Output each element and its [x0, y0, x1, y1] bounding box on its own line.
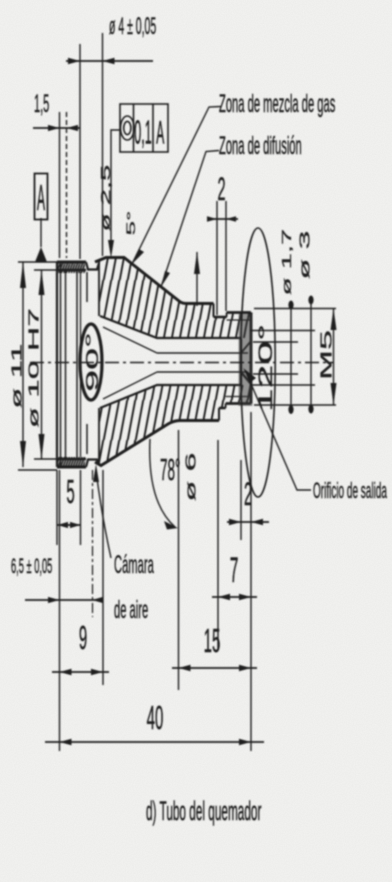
leader camara arrow — [93, 464, 99, 482]
dim 7 left arrow — [218, 594, 230, 600]
detail circle (large ellipse) — [241, 228, 275, 497]
bore line top (o10) — [57, 269, 86, 272]
thread root top — [227, 319, 251, 321]
dim 78 arc — [150, 439, 175, 527]
flange right face / chamber left wall — [86, 272, 88, 454]
svg-text:40: 40 — [147, 698, 164, 737]
svg-text:ø 1,7: ø 1,7 — [280, 229, 294, 296]
ext o3 top — [250, 330, 315, 332]
dim 2 right left arrow — [229, 519, 241, 525]
bottom air notch — [86, 460, 99, 468]
datum A triangle — [35, 247, 47, 262]
hatch flange bottom rim — [57, 457, 85, 467]
ext line x218 — [217, 440, 219, 650]
dim M5 line — [333, 309, 335, 406]
dim 2 right right arrow — [251, 519, 263, 525]
svg-text:120°: 120° — [255, 324, 276, 412]
inner funnel upper thin — [103, 327, 157, 353]
datum A box — [35, 174, 48, 220]
socket inner vertical 2 — [76, 270, 78, 459]
svg-text:Orificio de salida: Orificio de salida — [313, 477, 387, 503]
bore line bottom (o10) — [57, 458, 86, 461]
dim o3 line — [310, 298, 312, 411]
ext line o10 top — [34, 269, 57, 271]
dim o4 line — [66, 60, 153, 62]
inner funnel lower thin — [103, 372, 157, 399]
dim o3 bottom arrow — [308, 405, 313, 414]
dim 78 arrow — [164, 521, 178, 530]
svg-text:A: A — [37, 178, 45, 218]
dim 1,5 right arrow — [67, 125, 79, 131]
chamber vertical centerline — [92, 470, 94, 617]
dim M5 bottom arrow — [331, 383, 337, 405]
dim 15 line — [172, 667, 257, 669]
svg-text:6,5 ± 0,05: 6,5 ± 0,05 — [11, 555, 52, 578]
ext line x80.5 mid — [80, 470, 82, 545]
svg-text:0,1: 0,1 — [134, 114, 151, 151]
dim 6,5 right arrow — [92, 597, 103, 603]
leader zona difusion arrow — [161, 271, 170, 287]
small bore top — [157, 352, 248, 354]
ext o3 bottom — [250, 384, 315, 386]
air chamber cone 90deg ellipse — [80, 324, 102, 400]
dim 5 line — [57, 524, 81, 526]
ext line x57 mid — [56, 470, 58, 545]
dim 5 left arrow — [58, 522, 69, 528]
svg-text:15: 15 — [204, 621, 221, 660]
dim o4 right arrow — [103, 58, 115, 64]
dim 2 top left arrow — [207, 216, 217, 222]
svg-text:A: A — [156, 116, 164, 152]
flange left face — [56, 262, 58, 467]
svg-text:d) Tubo del quemador: d) Tubo del quemador — [146, 797, 261, 827]
end face — [250, 313, 253, 404]
dim 5 right arrow — [70, 522, 81, 528]
svg-text:Zona de mezcla de gas: Zona de mezcla de gas — [219, 90, 335, 118]
leader 5deg vertical — [196, 252, 198, 306]
dim 2 top right arrow — [226, 216, 236, 222]
upper outer profile cone and cylinder — [95, 258, 214, 304]
ext line x226 — [225, 201, 227, 311]
svg-text:ø 10 H7: ø 10 H7 — [25, 308, 42, 428]
dim o10H7 line — [41, 270, 43, 459]
ext line x59.5 top — [59, 112, 61, 258]
ext M5 bottom — [254, 404, 336, 406]
dim 1,5 line — [33, 127, 80, 129]
axis centerline — [30, 362, 333, 364]
leader zona difusion — [161, 151, 219, 288]
ext line x66.5 top — [66, 112, 68, 258]
top air notch — [86, 262, 99, 270]
small bore bottom — [157, 371, 248, 373]
part body — [30, 228, 333, 617]
ext line x59.5 bottom long — [59, 470, 61, 751]
dim 9 left arrow — [60, 669, 72, 675]
ext line x104 — [102, 33, 104, 256]
dim o11 top arrow — [20, 262, 26, 288]
svg-text:ø 4 ± 0,05: ø 4 ± 0,05 — [109, 12, 156, 39]
hatch flange top rim — [57, 262, 85, 273]
dim 40 left arrow — [60, 739, 72, 745]
dim 15 right arrow — [239, 665, 251, 671]
countersink chamfer lower — [241, 372, 251, 384]
ext line o11 bottom — [18, 469, 57, 471]
ext M5 top — [254, 308, 336, 310]
socket inner vertical 1 — [65, 270, 67, 459]
dim 9 right arrow — [91, 669, 103, 675]
hatch lower cone wall — [95, 385, 251, 466]
dim 40 right arrow — [239, 739, 251, 745]
dim 2 top line — [207, 218, 238, 220]
fcf leader — [111, 130, 120, 252]
dim o4 left arrow — [68, 58, 80, 64]
cone left wall lower — [98, 408, 100, 461]
dim o11 line — [22, 262, 24, 467]
countersink chamfer upper — [241, 341, 251, 353]
ext line o10 bottom — [34, 458, 57, 460]
hatch upper cone wall — [95, 258, 251, 339]
dim 6,5 line — [25, 599, 101, 601]
ext line x217 — [216, 201, 218, 315]
svg-text:M5: M5 — [317, 330, 335, 380]
ext line x103 — [102, 470, 104, 685]
leader zona mezcla arrow — [132, 249, 144, 264]
dim 9 line — [52, 671, 109, 673]
dim o1.7 bottom arrow — [288, 405, 293, 414]
dim M5 top arrow — [331, 309, 337, 331]
ext line x178.5 — [178, 430, 180, 690]
dim 7 line — [212, 596, 257, 598]
dim 7 right arrow — [239, 594, 251, 600]
svg-text:ø 2,5: ø 2,5 — [99, 165, 113, 232]
svg-text:2: 2 — [217, 172, 225, 208]
ext line o11 top — [18, 261, 57, 263]
dim o1.7 top arrow — [288, 301, 293, 310]
leader 5deg arrow — [194, 252, 200, 274]
dim 6,5 left arrow — [48, 597, 60, 603]
dim o10H7 bottom arrow — [39, 434, 45, 459]
svg-text:de aire: de aire — [114, 596, 148, 624]
fcf leader arrow — [108, 240, 114, 258]
svg-text:90°: 90° — [82, 332, 102, 392]
leader orificio arrow — [243, 368, 256, 382]
leader camara — [96, 470, 111, 558]
countersink start circle — [240, 339, 242, 386]
svg-text:9: 9 — [79, 618, 87, 657]
ext line x251 bottom long — [250, 412, 252, 751]
flange bottom outer edge — [57, 466, 86, 469]
dim 1,5 left arrow — [48, 125, 60, 131]
svg-text:ø 6: ø 6 — [182, 453, 199, 502]
thread root bottom — [226, 396, 251, 398]
datum A stem — [40, 218, 42, 247]
svg-text:Zona de difusión: Zona de difusión — [219, 132, 302, 160]
dim o11 bottom arrow — [20, 441, 26, 467]
svg-text:1,5: 1,5 — [34, 91, 49, 118]
funnel upper wall — [100, 316, 241, 338]
svg-text:7: 7 — [230, 551, 239, 590]
leader zona mezcla — [132, 107, 221, 265]
ext line x241 bottom — [240, 460, 242, 540]
fcf frame — [120, 104, 168, 152]
flange second face line — [60, 262, 62, 467]
funnel lower wall — [100, 385, 241, 408]
svg-text:5°: 5° — [125, 211, 138, 236]
step up at thread start — [213, 304, 215, 318]
thread crest top — [214, 316, 227, 319]
lower outer profile cone and cylinder — [95, 421, 219, 466]
ext o1.7 top — [253, 341, 298, 343]
dim o10H7 top arrow — [39, 270, 45, 295]
svg-text:Cámara: Cámara — [114, 551, 154, 579]
svg-text:78°: 78° — [160, 453, 180, 487]
svg-text:5: 5 — [66, 472, 74, 511]
dimensions — [18, 33, 337, 751]
leader orificio — [245, 370, 311, 490]
dim o1.7 line — [290, 302, 292, 412]
step down at thread start bottom — [218, 408, 220, 421]
flange top outer edge — [57, 261, 86, 264]
dim 15 left arrow — [179, 665, 191, 671]
svg-text:ø 11: ø 11 — [8, 343, 25, 408]
dim o3 top arrow — [308, 296, 313, 305]
thread crest bottom — [219, 407, 226, 410]
dim 2 right line — [227, 521, 269, 523]
svg-text:2: 2 — [244, 477, 252, 513]
ext o1.7 bottom — [253, 373, 298, 375]
svg-text:ø 3: ø 3 — [296, 231, 313, 280]
dim 40 line — [45, 741, 264, 743]
ext line x80 — [79, 44, 81, 259]
cone left wall upper — [98, 263, 100, 316]
